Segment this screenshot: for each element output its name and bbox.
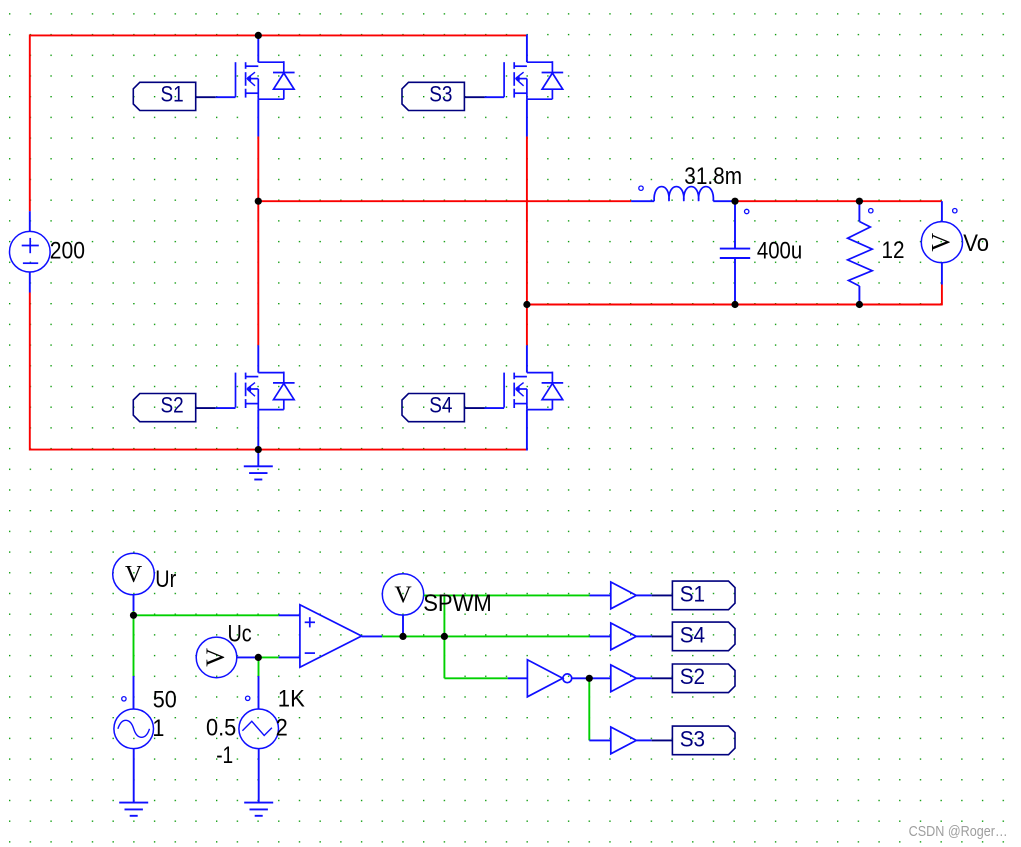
svg-text:S1: S1 bbox=[680, 581, 705, 606]
wire bottom load rail bbox=[527, 304, 942, 306]
wire bottom rail bbox=[30, 449, 528, 451]
wire Uc meter lead bbox=[237, 656, 258, 658]
wire S1 tag lead bbox=[196, 96, 216, 98]
svg-text:V: V bbox=[394, 582, 412, 608]
svg-text:50: 50 bbox=[153, 687, 177, 714]
voltmeter SPWM bbox=[382, 574, 423, 615]
wire S2 gate lead bbox=[216, 407, 236, 409]
wire S1 drain from top rail junction bbox=[257, 35, 259, 62]
wire SPWM meter lead bbox=[402, 615, 404, 636]
wire S1 row green (from SPWM meter edge) bbox=[424, 594, 590, 596]
wire top rail (+DC bus) bbox=[30, 34, 527, 36]
svg-text:-1: -1 bbox=[216, 742, 233, 769]
wire S4 drain lead (blue) bbox=[526, 345, 528, 372]
svg-text:S2: S2 bbox=[161, 393, 184, 418]
svg-text:CSDN @Roger…: CSDN @Roger… bbox=[909, 824, 1008, 840]
wire comparator + input lead bbox=[279, 614, 300, 616]
wire node B leg down to S4 drain bbox=[526, 305, 528, 346]
svg-text:Ur: Ur bbox=[155, 566, 176, 593]
wire S3 source lead (blue) bbox=[526, 99, 528, 136]
svg-text:S1: S1 bbox=[161, 81, 184, 106]
wire branch node to S4 buffer (green) bbox=[444, 635, 589, 637]
value label 31.8m bbox=[684, 163, 742, 190]
svg-text:0.5: 0.5 bbox=[206, 714, 236, 741]
wire sine source top lead bbox=[133, 676, 135, 709]
gating block label S1 bbox=[133, 81, 195, 110]
gating block label S4 bbox=[402, 393, 464, 422]
wire Uc node down to triangle source bbox=[258, 657, 260, 676]
junction bottom rail / ground bbox=[255, 446, 262, 453]
capacitor C1 400u bbox=[720, 201, 750, 304]
wire NOT node to S2 buffer lead bbox=[589, 677, 611, 679]
ground (triangle source) bbox=[244, 803, 273, 816]
svg-text:S2: S2 bbox=[680, 664, 705, 689]
svg-text:12: 12 bbox=[882, 237, 905, 264]
gating signal tag S3 bbox=[672, 726, 735, 755]
wire S4 gate lead bbox=[485, 407, 505, 409]
wire S3 buffer input lead bbox=[589, 739, 611, 741]
wire S3 drain from top rail corner bbox=[526, 35, 528, 63]
wire node A to inductor bbox=[258, 200, 631, 202]
wire S2 drain lead (blue) bbox=[257, 345, 259, 372]
value label 1K (frequency) bbox=[278, 686, 305, 713]
ground (sine source) bbox=[119, 803, 148, 816]
value label 1 (amplitude) bbox=[152, 715, 164, 742]
transistor S2 (MOSFET with antiparallel diode) bbox=[236, 372, 295, 410]
wire S2 drain from node A down bbox=[257, 201, 259, 345]
sine source VSIN 50/1 bbox=[114, 697, 154, 749]
wire S1 source lead (blue) bbox=[257, 99, 259, 136]
voltmeter Ur bbox=[113, 553, 155, 595]
value label 0.5 (duty) bbox=[206, 714, 236, 741]
wire comparator output green bbox=[382, 635, 403, 637]
wire Ur node to comparator + (green) bbox=[134, 614, 279, 616]
buffer gate to S2 (on-off controller) bbox=[611, 665, 637, 692]
transistor S3 (MOSFET with antiparallel diode) bbox=[504, 61, 563, 99]
wire S2 source to bottom rail bbox=[257, 410, 259, 450]
buffer gate to S3 (on-off controller) bbox=[611, 727, 637, 754]
wire comparator - input lead bbox=[279, 656, 300, 658]
buffer gate to S1 (on-off controller) bbox=[611, 582, 637, 609]
wire Ur meter lead bbox=[133, 595, 135, 611]
wire left bus down from top rail to DC source bbox=[29, 35, 31, 212]
svg-text:2: 2 bbox=[276, 715, 288, 742]
value label 12 bbox=[882, 237, 905, 264]
svg-text:V: V bbox=[201, 648, 230, 667]
dc source VDC 200 (circle with +/-) bbox=[10, 211, 51, 292]
gating block label S3 bbox=[402, 81, 464, 110]
wire S3 buffer to tag bbox=[652, 739, 673, 741]
wire S3 gate lead bbox=[485, 96, 505, 98]
inductor L1 31.8m bbox=[631, 186, 735, 201]
junction NOT output node bbox=[586, 675, 593, 682]
svg-text:V: V bbox=[926, 233, 955, 252]
junction node A (left leg midpoint) bbox=[255, 198, 262, 205]
junction node B bottom rail bbox=[523, 301, 530, 308]
junction Uc node bbox=[255, 654, 262, 661]
wire Vo bottom red bbox=[941, 285, 943, 306]
wire Uc node to comparator - (green) bbox=[258, 656, 278, 658]
resistor R1 12 bbox=[848, 201, 873, 304]
wire branch node down to NOT row bbox=[443, 636, 445, 678]
wire resistor node to Vo corner bbox=[859, 200, 942, 202]
wire NOT node down to S3 row bbox=[588, 678, 590, 740]
wire branch node up to S1 row bbox=[443, 595, 445, 636]
wire S4 buffer input lead bbox=[590, 635, 611, 637]
junction cap bottom bbox=[731, 301, 738, 308]
wire S3 tag lead bbox=[464, 96, 484, 98]
voltmeter Vo (rotated V probe) bbox=[941, 201, 943, 221]
wire S4 source to bottom rail end bbox=[526, 410, 528, 451]
transistor S4 (MOSFET with antiparallel diode) bbox=[504, 372, 563, 410]
svg-text:S3: S3 bbox=[680, 726, 705, 751]
svg-text:Vo: Vo bbox=[963, 230, 989, 257]
junction branch node bbox=[441, 633, 448, 640]
gating signal tag S1 bbox=[672, 581, 735, 610]
gating signal tag S4 bbox=[672, 622, 735, 651]
wire NOT row green bbox=[444, 677, 507, 679]
wire triangle source top lead bbox=[258, 676, 260, 709]
svg-text:200: 200 bbox=[50, 238, 85, 265]
wire S2 buffer output lead bbox=[636, 677, 651, 679]
wire NOT output to junction bbox=[572, 677, 590, 679]
svg-text:V: V bbox=[125, 562, 143, 588]
svg-text:1: 1 bbox=[152, 715, 164, 742]
value label 2 (amplitude) bbox=[276, 715, 288, 742]
value label 200 bbox=[50, 238, 85, 265]
junction resistor bottom bbox=[856, 301, 863, 308]
gating signal tag S2 bbox=[672, 664, 735, 693]
wire triangle source bottom lead bbox=[258, 749, 260, 803]
voltmeter Vo circle bbox=[921, 222, 962, 263]
wire sine source bottom lead bbox=[133, 749, 135, 803]
label Vo bbox=[963, 230, 989, 257]
junction resistor top bbox=[856, 198, 863, 205]
wire S4 tag lead bbox=[464, 407, 484, 409]
label SPWM bbox=[423, 590, 492, 617]
svg-text:Uc: Uc bbox=[228, 621, 252, 648]
wire S2 tag lead bbox=[196, 407, 216, 409]
svg-text:1K: 1K bbox=[278, 686, 305, 713]
NOT gate U2 (inverter) bbox=[527, 660, 571, 697]
transistor S1 (MOSFET with antiparallel diode) bbox=[236, 61, 295, 99]
junction inductor output / cap bbox=[731, 198, 738, 205]
wire S4 buffer to tag bbox=[652, 635, 673, 637]
wire S2 buffer to tag bbox=[652, 677, 673, 679]
ground bars (power stage) bbox=[244, 466, 273, 479]
wire Ur lead green bbox=[133, 611, 135, 615]
label Ur bbox=[155, 566, 176, 593]
junction Ur node bbox=[130, 612, 137, 619]
svg-text:31.8m: 31.8m bbox=[684, 163, 742, 190]
wire S4 buffer output lead bbox=[636, 635, 651, 637]
voltmeter Uc (rotated V probe) bbox=[196, 637, 237, 678]
wire left bus down from DC source to bottom rail bbox=[29, 293, 31, 451]
svg-text:S4: S4 bbox=[680, 622, 705, 647]
svg-text:S4: S4 bbox=[429, 393, 452, 418]
svg-text:400u: 400u bbox=[757, 238, 802, 265]
wire S3 buffer output lead bbox=[636, 739, 651, 741]
wire S3 source down to node B bbox=[526, 137, 528, 306]
label Uc bbox=[228, 621, 252, 648]
wire SPWM node to branch node bbox=[403, 635, 444, 637]
gating block label S2 bbox=[133, 393, 195, 422]
buffer gate to S4 (on-off controller) bbox=[611, 623, 637, 650]
wire S1 buffer to tag bbox=[652, 594, 673, 596]
wire NOT gate input lead bbox=[508, 677, 528, 679]
wire comparator output lead bbox=[362, 635, 383, 637]
wire S1 buffer input lead bbox=[590, 594, 611, 596]
wire S1 gate lead bbox=[216, 96, 236, 98]
op-amp U1 comparator bbox=[300, 605, 362, 667]
wire S1 source to midpoint A bbox=[257, 137, 259, 203]
wire inductor node to resistor node bbox=[735, 200, 859, 202]
svg-text:S3: S3 bbox=[429, 81, 452, 106]
value label -1 (offset) bbox=[216, 742, 233, 769]
svg-text:SPWM: SPWM bbox=[423, 590, 492, 617]
value label 50 (frequency) bbox=[153, 687, 177, 714]
triangle source VTRI 1K/2 bbox=[239, 696, 279, 749]
watermark text bbox=[909, 824, 1008, 840]
wire S1 buffer output lead bbox=[636, 594, 651, 596]
ground (power stage) bbox=[257, 450, 259, 467]
wire Ur node down to sine source bbox=[133, 615, 135, 676]
value label 400u bbox=[757, 238, 802, 265]
junction SPWM node bbox=[399, 633, 406, 640]
junction top rail / S1 drain bbox=[255, 32, 262, 39]
